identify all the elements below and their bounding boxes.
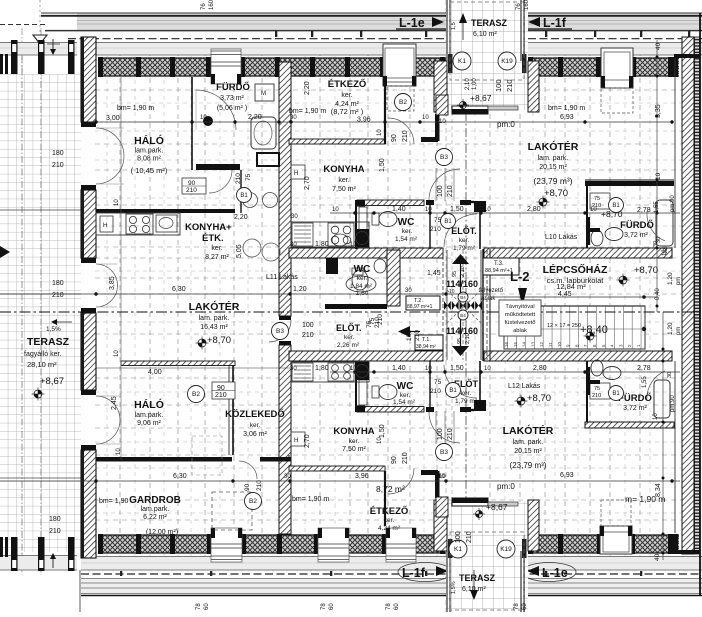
svg-text:10: 10 (377, 129, 383, 136)
svg-text:ker.: ker. (250, 422, 261, 429)
svg-text:30: 30 (656, 237, 662, 243)
svg-text:100: 100 (437, 428, 444, 440)
svg-text:LAKÓTÉR: LAKÓTÉR (189, 300, 240, 313)
svg-text:4,00: 4,00 (148, 369, 162, 376)
svg-text:TERASZ: TERASZ (471, 18, 508, 28)
svg-text:75: 75 (434, 379, 442, 386)
svg-text:76: 76 (201, 3, 207, 10)
svg-text:H: H (294, 171, 298, 177)
svg-text:B1: B1 (612, 203, 620, 209)
svg-text:78: 78 (196, 603, 202, 610)
svg-text:(12,00 m²): (12,00 m²) (146, 529, 178, 536)
svg-text:160: 160 (209, 0, 215, 10)
svg-text:+8,67: +8,67 (40, 376, 64, 387)
svg-text:ÉTK.: ÉTK. (202, 233, 224, 244)
svg-text:20,15 m²: 20,15 m² (514, 448, 542, 455)
svg-text:GARDROB: GARDROB (129, 495, 181, 506)
svg-text:6,30: 6,30 (172, 286, 186, 293)
svg-text:3,96: 3,96 (355, 473, 369, 480)
svg-text:78: 78 (386, 603, 392, 610)
svg-text:ablak: ablak (481, 296, 496, 302)
svg-text:5,05: 5,05 (236, 244, 243, 258)
svg-text:180: 180 (49, 516, 61, 523)
svg-text:működtetett: működtetett (505, 312, 536, 318)
svg-text:210: 210 (414, 330, 421, 341)
svg-text:K1: K1 (458, 58, 466, 65)
svg-text:B2: B2 (249, 498, 257, 505)
svg-text:10: 10 (200, 115, 207, 121)
svg-text:(23,79 m³): (23,79 m³) (533, 176, 572, 186)
svg-text:210: 210 (256, 480, 263, 491)
svg-text:100: 100 (494, 79, 503, 92)
svg-text:10: 10 (425, 207, 432, 213)
svg-text:HÁLÓ: HÁLÓ (134, 398, 164, 411)
svg-text:K19: K19 (500, 546, 512, 553)
svg-text:bm= 1,90 m: bm= 1,90 m (292, 496, 329, 503)
svg-text:2,70: 2,70 (304, 434, 311, 448)
svg-text:ÉTKEZŐ: ÉTKEZŐ (328, 78, 367, 90)
svg-text:B3: B3 (276, 328, 284, 335)
svg-text:210: 210 (402, 452, 409, 464)
svg-text:210: 210 (302, 332, 314, 339)
svg-text:210: 210 (466, 531, 473, 543)
svg-text:pm: pm (676, 327, 682, 335)
svg-text:10: 10 (590, 207, 597, 213)
svg-text:lam.park.: lam.park. (135, 412, 164, 419)
svg-text:3,72 m²: 3,72 m² (624, 232, 648, 239)
svg-text:210: 210 (52, 292, 64, 299)
svg-text:60: 60 (329, 603, 335, 610)
svg-text:10: 10 (422, 115, 429, 121)
svg-text:B3: B3 (440, 449, 448, 456)
svg-text:2,78: 2,78 (637, 365, 651, 372)
svg-text:60: 60 (394, 603, 400, 610)
svg-text:2,80: 2,80 (527, 206, 541, 213)
svg-text:30: 30 (405, 288, 412, 294)
svg-text:lam. park.: lam. park. (538, 155, 569, 162)
svg-text:L-2: L-2 (510, 269, 530, 284)
svg-text:30: 30 (290, 242, 297, 248)
svg-text:1,40: 1,40 (392, 365, 406, 372)
svg-text:8,34: 8,34 (655, 483, 662, 497)
svg-text:1,80: 1,80 (315, 365, 329, 372)
svg-text:L-1e: L-1e (542, 566, 568, 580)
svg-text:8,27 m²: 8,27 m² (205, 254, 229, 261)
svg-text:pm:90: pm:90 (670, 395, 676, 412)
svg-text:B3: B3 (440, 154, 448, 161)
svg-text:3,35: 3,35 (655, 104, 662, 118)
svg-text:1,00: 1,00 (472, 78, 478, 90)
svg-text:pm:0: pm:0 (497, 482, 515, 491)
svg-text:ELŐT.: ELŐT. (336, 322, 362, 333)
svg-text:180: 180 (52, 150, 64, 157)
svg-text:1,54 m²: 1,54 m² (395, 236, 418, 243)
svg-text:90: 90 (244, 483, 251, 491)
svg-text:210: 210 (402, 130, 409, 142)
svg-text:LAKÓTÉR: LAKÓTÉR (503, 424, 554, 437)
svg-text:3,73 m²: 3,73 m² (220, 95, 244, 102)
svg-text:lam. park.: lam. park. (513, 439, 544, 446)
svg-text:8,08 m²: 8,08 m² (137, 156, 161, 163)
svg-text:2,20: 2,20 (304, 81, 311, 95)
svg-text:210: 210 (505, 79, 514, 92)
svg-text:20,15 m²: 20,15 m² (539, 164, 567, 171)
svg-text:88,94 m²+1: 88,94 m²+1 (485, 268, 513, 274)
svg-text:75: 75 (594, 386, 600, 392)
svg-text:1,50: 1,50 (379, 424, 386, 438)
svg-text:2,26 m²: 2,26 m² (337, 342, 360, 349)
svg-text:T.1.: T.1. (422, 337, 431, 343)
svg-text:6,10 m²: 6,10 m² (473, 31, 497, 38)
svg-text:ÉTKEZŐ: ÉTKEZŐ (370, 505, 409, 517)
svg-text:3,85: 3,85 (109, 276, 116, 290)
svg-text:10: 10 (332, 207, 339, 213)
svg-text:90: 90 (391, 134, 398, 142)
svg-text:10: 10 (377, 437, 383, 444)
svg-text:WC: WC (354, 264, 371, 275)
svg-text:bm= 1,90 m: bm= 1,90 m (289, 108, 326, 115)
svg-text:12: 12 (663, 248, 669, 254)
svg-text:1,55: 1,55 (642, 376, 648, 388)
svg-text:100: 100 (406, 330, 413, 341)
svg-text:ker.: ker. (338, 177, 349, 184)
svg-text:10: 10 (350, 242, 357, 248)
svg-text:210: 210 (49, 528, 61, 535)
svg-text:B1: B1 (612, 391, 620, 397)
svg-text:ker.: ker. (211, 245, 222, 252)
svg-text:11: 11 (548, 342, 553, 347)
svg-text:1,45: 1,45 (427, 270, 441, 277)
svg-text:75: 75 (366, 320, 373, 328)
svg-text:210: 210 (592, 393, 601, 399)
svg-text:6,93: 6,93 (560, 472, 574, 479)
svg-text:bm= 1,90 m: bm= 1,90 m (117, 105, 154, 112)
svg-text:LAKÓTÉR: LAKÓTÉR (528, 140, 579, 153)
svg-text:bm= 1,90 m: bm= 1,90 m (548, 105, 585, 112)
svg-text:(8,72 m² ): (8,72 m² ) (331, 107, 364, 116)
svg-text:210: 210 (215, 392, 227, 399)
svg-text:4,24 m²: 4,24 m² (378, 525, 401, 532)
svg-text:76: 76 (516, 3, 522, 10)
svg-text:2,70: 2,70 (304, 176, 311, 190)
svg-text:75: 75 (358, 238, 366, 245)
svg-text:210: 210 (447, 428, 454, 440)
svg-text:(23,79 m³): (23,79 m³) (510, 461, 547, 470)
svg-text:210: 210 (52, 162, 64, 169)
svg-text:(5,06 m² ): (5,06 m² ) (217, 105, 247, 112)
svg-text:ker.: ker. (349, 438, 360, 445)
svg-text:1,84 m²: 1,84 m² (350, 283, 373, 290)
svg-text:100: 100 (437, 185, 444, 197)
svg-text:15: 15 (513, 341, 518, 347)
svg-text:1,54 m²: 1,54 m² (393, 399, 416, 406)
svg-text:1,20: 1,20 (293, 286, 307, 293)
svg-text:7,50 m²: 7,50 m² (332, 186, 356, 193)
svg-text:2,10: 2,10 (460, 266, 466, 277)
svg-text:ker.: ker. (341, 92, 352, 99)
svg-text:78: 78 (321, 603, 327, 610)
svg-text:2,10: 2,10 (465, 78, 471, 90)
svg-text:12,84 m²: 12,84 m² (556, 282, 586, 291)
svg-text:B1: B1 (240, 193, 248, 199)
svg-text:3,00: 3,00 (106, 115, 120, 122)
svg-text:+8,70: +8,70 (544, 188, 568, 199)
svg-text:12 × 17 = 250: 12 × 17 = 250 (547, 323, 581, 329)
svg-text:75: 75 (594, 196, 600, 202)
svg-text:ker.: ker. (344, 334, 355, 341)
svg-text:( 10,45 m²): ( 10,45 m²) (131, 166, 168, 175)
svg-text:30: 30 (290, 115, 297, 121)
svg-text:1,5: 1,5 (451, 22, 457, 30)
svg-text:10: 10 (114, 350, 120, 357)
svg-text:pm:90: pm:90 (670, 195, 676, 212)
svg-text:60: 60 (522, 603, 528, 610)
svg-text:10: 10 (484, 366, 491, 372)
svg-text:7,50 m²: 7,50 m² (342, 446, 366, 453)
svg-text:B2: B2 (399, 99, 407, 106)
svg-text:2,10: 2,10 (465, 333, 471, 344)
svg-text:40: 40 (655, 42, 662, 50)
svg-text:ablak: ablak (513, 328, 527, 334)
svg-text:L-1e: L-1e (399, 16, 425, 30)
svg-text:3,06 m²: 3,06 m² (243, 431, 267, 438)
svg-text:B2: B2 (192, 391, 200, 398)
svg-text:WC: WC (398, 217, 415, 228)
svg-text:30: 30 (290, 366, 297, 372)
svg-text:3,96: 3,96 (357, 117, 371, 124)
svg-text:210: 210 (186, 187, 197, 194)
svg-text:1,55: 1,55 (654, 201, 660, 213)
svg-text:30: 30 (284, 474, 291, 480)
svg-text:16,43 m²: 16,43 m² (200, 324, 228, 331)
svg-text:M: M (261, 91, 266, 97)
svg-text:10: 10 (439, 474, 446, 480)
svg-text:8,72 m²: 8,72 m² (376, 484, 405, 494)
svg-text:9,06 m²: 9,06 m² (137, 420, 161, 427)
svg-text:1,50: 1,50 (450, 365, 464, 372)
svg-text:6,93: 6,93 (560, 114, 574, 121)
svg-text:B4: B4 (460, 295, 466, 300)
svg-text:90: 90 (391, 456, 398, 464)
svg-text:ker.: ker. (402, 228, 413, 235)
svg-text:KONYHA: KONYHA (323, 164, 364, 175)
svg-text:ker.: ker. (459, 237, 470, 244)
svg-text:KONYHA: KONYHA (333, 426, 374, 437)
svg-text:KONYHA+: KONYHA+ (185, 222, 232, 233)
svg-text:6,30: 6,30 (173, 473, 187, 480)
svg-text:B4: B4 (460, 313, 466, 318)
svg-text:+8,70: +8,70 (207, 335, 231, 346)
svg-text:10: 10 (114, 199, 120, 206)
svg-text:2,80: 2,80 (533, 365, 547, 372)
svg-text:30: 30 (291, 214, 298, 220)
svg-text:L10 Lakás: L10 Lakás (545, 234, 578, 241)
svg-text:B1: B1 (444, 219, 452, 225)
svg-text:ker.: ker. (384, 517, 395, 524)
svg-text:1,5%: 1,5% (46, 326, 61, 333)
svg-text:H: H (294, 438, 298, 444)
svg-text:88,97 m²+1: 88,97 m²+1 (407, 304, 433, 310)
svg-text:114/160: 114/160 (446, 326, 478, 336)
svg-text:180: 180 (52, 280, 64, 287)
svg-text:1,20: 1,20 (667, 272, 674, 285)
svg-text:L-1f: L-1f (543, 16, 567, 30)
svg-text:38,94 m²: 38,94 m² (416, 344, 436, 350)
svg-text:210: 210 (447, 185, 454, 197)
svg-text:pm:0: pm:0 (497, 120, 515, 129)
svg-text:2,20: 2,20 (234, 214, 248, 221)
svg-text:1,50: 1,50 (450, 206, 464, 213)
svg-text:210: 210 (430, 388, 441, 395)
svg-text:TERASZ: TERASZ (27, 336, 70, 348)
svg-text:14: 14 (522, 341, 527, 347)
svg-text:40: 40 (654, 553, 661, 561)
svg-text:TERASZ: TERASZ (459, 573, 496, 583)
svg-text:114/160: 114/160 (446, 279, 478, 289)
svg-text:+8,70: +8,70 (527, 393, 551, 404)
svg-text:100: 100 (455, 531, 462, 543)
svg-text:75: 75 (245, 173, 252, 181)
svg-text:10: 10 (439, 119, 446, 125)
svg-text:+8,67: +8,67 (486, 502, 508, 512)
svg-text:1,5%: 1,5% (451, 581, 457, 594)
svg-text:HÁLÓ: HÁLÓ (134, 134, 164, 147)
svg-text:30: 30 (667, 372, 673, 378)
svg-text:bm= 1,90: bm= 1,90 (99, 498, 128, 505)
svg-text:füstelvezető: füstelvezető (505, 320, 536, 326)
svg-text:2,45: 2,45 (111, 396, 118, 410)
svg-text:95: 95 (452, 271, 458, 277)
svg-text:WC: WC (397, 381, 414, 392)
svg-text:4,45: 4,45 (558, 291, 572, 298)
svg-text:pm: pm (676, 277, 682, 285)
svg-text:ELŐT.: ELŐT. (451, 225, 477, 236)
svg-text:1,79 m²: 1,79 m² (455, 398, 478, 405)
svg-text:lam.park.: lam.park. (141, 506, 170, 513)
svg-text:H: H (103, 223, 107, 229)
svg-text:100: 100 (302, 322, 314, 329)
svg-text:lam. park.: lam. park. (199, 315, 230, 322)
svg-text:1,80: 1,80 (315, 241, 329, 248)
svg-text:L-1f: L-1f (402, 566, 426, 580)
svg-text:K1: K1 (454, 546, 462, 553)
svg-text:95: 95 (457, 338, 463, 344)
svg-text:1,50: 1,50 (379, 158, 386, 172)
svg-text:210: 210 (374, 317, 381, 328)
svg-text:ker.: ker. (400, 392, 411, 399)
svg-text:K19: K19 (501, 58, 513, 65)
svg-text:FÜRDŐ: FÜRDŐ (620, 219, 654, 231)
svg-text:B1: B1 (449, 388, 457, 394)
svg-text:1,20: 1,20 (667, 322, 674, 335)
svg-text:10: 10 (557, 341, 562, 347)
svg-text:10: 10 (653, 413, 659, 420)
svg-text:160: 160 (524, 0, 530, 10)
svg-text:28,10 m²: 28,10 m² (27, 360, 57, 369)
svg-text:lam.park.: lam.park. (135, 148, 164, 155)
svg-text:+8,67: +8,67 (470, 93, 492, 103)
svg-text:6,22 m²: 6,22 m² (143, 514, 167, 521)
svg-text:ker.: ker. (461, 390, 472, 397)
svg-text:90: 90 (217, 385, 225, 392)
svg-text:+8,70: +8,70 (634, 265, 658, 276)
svg-text:L11 Lakás: L11 Lakás (266, 274, 298, 281)
svg-text:FÜRDŐ: FÜRDŐ (216, 81, 250, 93)
svg-text:LÉPCSŐHÁZ: LÉPCSŐHÁZ (543, 263, 608, 276)
svg-text:KÖZLEKEDŐ: KÖZLEKEDŐ (225, 408, 285, 420)
svg-text:fagyálló ker.: fagyálló ker. (24, 351, 61, 358)
svg-text:10: 10 (350, 366, 357, 372)
svg-text:L12 Lakás: L12 Lakás (508, 383, 541, 390)
svg-text:10: 10 (425, 366, 432, 372)
svg-text:felvezető: felvezető (479, 288, 504, 294)
svg-text:16: 16 (504, 341, 509, 347)
svg-text:10: 10 (484, 207, 491, 213)
svg-text:1,40: 1,40 (392, 206, 406, 213)
svg-text:78: 78 (514, 603, 520, 610)
svg-text:Távnyitóval: Távnyitóval (505, 304, 534, 310)
svg-text:T.3.: T.3. (494, 261, 504, 267)
svg-text:12: 12 (539, 341, 544, 347)
svg-text:0,40: 0,40 (655, 288, 661, 300)
svg-text:10: 10 (655, 172, 662, 180)
svg-text:2,20: 2,20 (248, 114, 262, 121)
svg-text:210: 210 (235, 173, 242, 184)
svg-text:13: 13 (530, 341, 535, 347)
svg-text:210: 210 (430, 226, 441, 233)
svg-text:60: 60 (204, 603, 210, 610)
svg-text:3,72 m²: 3,72 m² (623, 405, 647, 412)
svg-text:1,79 m²: 1,79 m² (453, 245, 476, 252)
